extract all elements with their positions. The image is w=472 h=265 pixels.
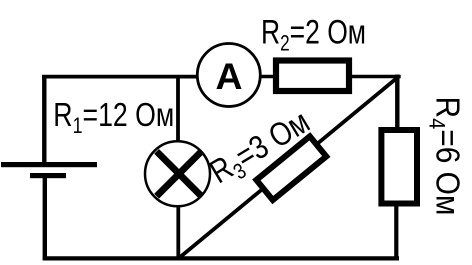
wire ammeter to R2 xyxy=(258,75,278,79)
wire left vertical upper xyxy=(42,75,46,164)
resistor R4 body xyxy=(381,130,417,204)
lamp HL cross stroke 2 xyxy=(157,151,202,196)
resistor R2 body xyxy=(276,61,349,92)
resistor R3 body (rotated on diagonal) xyxy=(256,136,326,200)
wire right vertical upper xyxy=(395,75,399,131)
wire left vertical lower xyxy=(43,178,47,261)
svg-text:R2=2 Ом: R2=2 Ом xyxy=(261,14,366,56)
ammeter A circle xyxy=(197,44,260,107)
wire top horizontal xyxy=(42,75,198,79)
wire lamp vertical lower xyxy=(176,204,180,258)
wire diagonal (node bottom to node top-right) xyxy=(179,77,399,259)
lamp HL cross stroke 1 xyxy=(157,151,202,196)
battery short plate (-) xyxy=(30,173,66,178)
battery long plate (+) xyxy=(1,162,97,167)
lamp HL circle xyxy=(145,141,210,206)
wire right vertical lower xyxy=(394,204,398,258)
svg-text:R1=12 Ом: R1=12 Ом xyxy=(53,96,174,138)
svg-text:A: A xyxy=(216,55,243,97)
wire lamp vertical upper xyxy=(176,77,180,146)
wire bottom horizontal xyxy=(43,256,399,260)
wire R2 right to top-right corner xyxy=(350,75,401,79)
svg-text:R4=6 Ом: R4=6 Ом xyxy=(425,97,467,216)
